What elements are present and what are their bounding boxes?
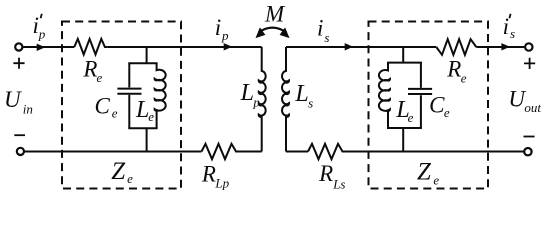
svg-text:L: L — [240, 80, 254, 106]
wire stub LC bottom to rail left — [146, 128, 148, 151]
wire top mid-left (R_e to L_p) — [107, 46, 262, 48]
svg-text:e: e — [112, 106, 118, 121]
wire LC loop bottom bar right — [387, 127, 422, 129]
wire bottom left rail — [25, 151, 202, 153]
mutual inductance arc M — [259, 28, 287, 33]
svg-text:e: e — [433, 173, 439, 188]
dashed box Z_e left — [62, 22, 181, 189]
resistor R_Ls — [308, 144, 346, 159]
svg-text:i: i — [317, 16, 323, 41]
svg-text:R: R — [446, 57, 461, 82]
svg-text:e: e — [97, 70, 103, 85]
wire stub LC bottom to rail right — [402, 128, 404, 152]
current arrow i'_s — [501, 43, 510, 50]
svg-text:e: e — [461, 71, 467, 86]
wire top left (terminal to R_e) — [23, 46, 75, 48]
current arrow i_s — [345, 43, 354, 50]
inductor L_e right — [379, 63, 390, 128]
svg-text:p: p — [221, 28, 229, 43]
plus sign input — [13, 58, 24, 69]
output terminal top — [525, 43, 532, 50]
svg-text:out: out — [524, 100, 541, 115]
svg-text:R: R — [201, 161, 216, 186]
svg-text:U: U — [4, 87, 22, 112]
svg-text:e: e — [148, 109, 154, 124]
svg-text:e: e — [127, 171, 133, 186]
minus sign input — [14, 134, 25, 136]
svg-text:R: R — [82, 57, 97, 82]
wire R_Lp to L_p bottom — [241, 151, 262, 153]
M arc arrowhead left — [256, 27, 266, 38]
svg-text:Lp: Lp — [214, 176, 229, 191]
M arc arrowhead right — [280, 27, 290, 38]
svg-text:Ls: Ls — [332, 176, 345, 191]
wire L_s bottom to R_Ls — [286, 151, 308, 153]
svg-text:p: p — [38, 27, 46, 42]
svg-text:s: s — [308, 95, 313, 110]
prime of i'_p — [41, 14, 42, 18]
input terminal top — [15, 43, 22, 50]
plus sign output — [524, 58, 535, 69]
resistor R_Lp — [202, 144, 242, 159]
minus sign output — [524, 136, 535, 138]
svg-text:R: R — [318, 161, 333, 186]
resistor R_e right — [436, 39, 476, 55]
wire bottom right rail — [346, 151, 523, 153]
wire R_e right to output terminal — [476, 46, 524, 48]
wire LC loop top bar left — [128, 62, 157, 64]
input terminal bottom — [17, 148, 24, 155]
current arrow i'_p — [37, 44, 46, 51]
svg-text:e: e — [444, 105, 450, 120]
dashed box Z_e right — [369, 22, 489, 189]
svg-text:Z: Z — [417, 158, 432, 185]
svg-text:i: i — [215, 15, 221, 40]
wire top right (L_s to R_e right) — [286, 46, 436, 48]
wire stub node to LC top right — [402, 47, 404, 63]
svg-text:C: C — [95, 94, 111, 119]
current arrow i_p — [224, 43, 233, 50]
capacitor C_e left — [117, 63, 141, 128]
resistor R_e left — [74, 39, 107, 55]
inductor L_s — [282, 47, 289, 152]
prime of i'_s — [509, 14, 510, 18]
inductor L_e left — [155, 63, 166, 128]
svg-text:C: C — [429, 93, 445, 118]
svg-text:i: i — [503, 14, 509, 39]
capacitor C_e right — [408, 63, 432, 128]
svg-text:s: s — [324, 30, 329, 45]
wire LC loop top bar right — [387, 62, 422, 64]
output terminal bottom — [524, 148, 531, 155]
svg-text:s: s — [510, 26, 515, 41]
svg-text:M: M — [264, 2, 286, 27]
svg-text:p: p — [252, 95, 260, 110]
wire stub node to LC top left — [146, 47, 148, 63]
svg-text:L: L — [294, 81, 308, 107]
svg-text:e: e — [408, 110, 414, 125]
wire LC loop bottom bar left — [128, 127, 157, 129]
svg-text:in: in — [23, 101, 33, 116]
svg-text:Z: Z — [111, 158, 126, 185]
inductor L_p — [259, 47, 266, 152]
